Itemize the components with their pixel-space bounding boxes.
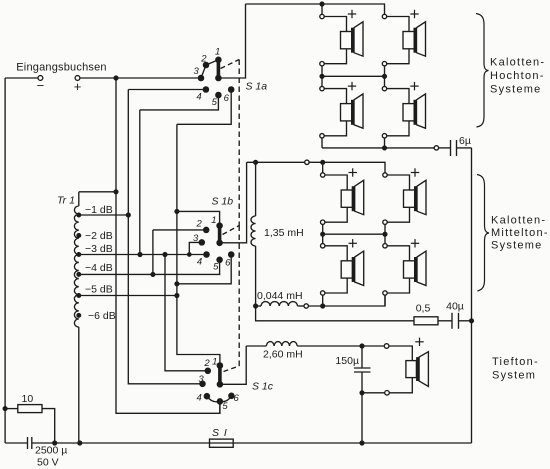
svg-text:1: 1 xyxy=(211,215,216,226)
connector circle midrange top xyxy=(305,160,309,164)
wire bus x=165: -3dB to S1c c2 xyxy=(165,255,206,371)
wire connector to capacitor C 6u xyxy=(439,147,451,149)
junction midrange rail / inductor 1,35mH xyxy=(254,160,258,164)
wire -4dB tap to S1b contact 5 xyxy=(79,262,220,274)
brace Hochton group xyxy=(476,14,489,128)
junction -1dB bus xyxy=(126,213,130,217)
junction mid rail right xyxy=(383,74,387,78)
svg-text:S 1b: S 1b xyxy=(212,196,234,208)
connector circle tweeter feed xyxy=(434,146,438,150)
S1a contact 1 xyxy=(216,57,221,62)
switch S1c xyxy=(197,346,274,413)
S1c contact 2 xyxy=(205,368,210,373)
wire S1c contact 5 down to 0dB line xyxy=(219,401,221,413)
wire plus terminal to S1a contact 3 xyxy=(80,77,201,79)
S1c contact 5 xyxy=(217,399,222,404)
S1a coupling link dashed xyxy=(221,60,240,69)
svg-text:Systeme: Systeme xyxy=(491,240,543,252)
wire T1 bottom to mid rail xyxy=(321,66,323,87)
wire S1a contact 6 to bus xyxy=(177,90,231,125)
wire connector to woofer xyxy=(389,346,412,361)
loudspeaker M4 (Mittelton) xyxy=(383,244,426,296)
transformer Tr1 winding xyxy=(74,206,78,327)
midrange bottom rail xyxy=(308,295,385,306)
svg-text:4: 4 xyxy=(197,257,202,268)
polarity + M4 xyxy=(411,239,419,247)
wire woofer bottom xyxy=(389,378,412,393)
svg-text:−4 dB: −4 dB xyxy=(85,262,113,274)
S1a contact 6 xyxy=(229,87,234,92)
resistor R1 10 xyxy=(18,405,42,413)
inductor L1 1,35mH winding xyxy=(251,216,256,246)
inductor L1 1,35mH bottom lead xyxy=(255,246,257,306)
wire bus x=128.3: S1a c4 / -1dB / S1c c3 xyxy=(128,90,202,384)
S1a bridge contact 3 to 2 xyxy=(201,65,206,78)
junction -3dB / S1b c3 jog xyxy=(188,253,191,256)
svg-text:−3 dB: −3 dB xyxy=(85,243,113,255)
svg-text:6: 6 xyxy=(234,393,240,404)
loudspeaker W1 (Tiefton) xyxy=(406,352,429,387)
capacitor C3 150u leads xyxy=(361,346,363,368)
svg-text:2: 2 xyxy=(200,54,207,65)
junction midrange mid rail left xyxy=(321,232,325,236)
wire -5dB tap to bus xyxy=(79,295,177,297)
wire S1c common to woofer branch xyxy=(220,346,246,384)
S1b contact 1 xyxy=(217,223,222,228)
svg-text:6µ: 6µ xyxy=(459,135,471,147)
loudspeaker M1 (Mittelton) xyxy=(321,173,364,225)
tap node -5dB xyxy=(77,294,81,298)
resistor R1 10 branch from left rail xyxy=(3,407,7,411)
wire resistor 10 to ground rail xyxy=(42,409,55,443)
transformer Tr1 winding bottom lead to ground rail xyxy=(78,327,80,443)
S1c common pole xyxy=(217,382,222,387)
inductor L2 0,044mH winding xyxy=(261,302,298,306)
wire bus x=176.9: S1a c6 / S1b c1 / S1b c6 / -5dB / S1c c1 xyxy=(177,124,220,365)
polarity + T4 xyxy=(410,82,418,90)
wire S1b contact 3 jog to -3dB line xyxy=(189,242,202,254)
wire 0dB vertical: plus junction down to transformer top and S1c xyxy=(116,78,220,413)
svg-text:Kalotten-: Kalotten- xyxy=(490,57,545,69)
svg-text:5: 5 xyxy=(213,262,219,273)
junction winding bottom / ground rail xyxy=(78,441,82,445)
junction tweeter rail / speaker T1 xyxy=(320,2,324,6)
junction 150u bottom xyxy=(360,391,364,395)
wire S1a contact 5 to bus xyxy=(140,95,219,110)
junction midrange mid rail right xyxy=(383,232,387,236)
S1b coupling link dashed xyxy=(223,226,240,235)
wire branch to S1b contact 1 xyxy=(177,211,220,225)
connector circle woofer bottom xyxy=(385,391,390,396)
svg-text:1: 1 xyxy=(215,47,220,58)
svg-text:S I: S I xyxy=(212,427,228,439)
S1a contact 2 xyxy=(203,62,208,67)
wire T4 bottom to bottom rail xyxy=(384,138,386,148)
wire M1 bottom to mid rail xyxy=(322,224,324,243)
svg-text:System: System xyxy=(492,370,536,382)
tap node -1dB xyxy=(77,213,81,217)
wire bus x=139.8: S1a c5 to -3dB xyxy=(139,110,141,255)
wire capacitor 6u to right bus xyxy=(457,147,472,149)
junction midrange bottom rail / M3 xyxy=(321,304,325,308)
S1c bridge contact 4 to 5 xyxy=(207,396,220,402)
svg-text:+: + xyxy=(74,79,82,94)
svg-text:2: 2 xyxy=(203,358,210,369)
wire capacitor 40u to right bus xyxy=(459,320,472,322)
switch S1b xyxy=(153,162,247,283)
S1b contact 4 xyxy=(204,252,209,257)
wire left rail (minus bus) down xyxy=(4,78,6,443)
svg-text:1: 1 xyxy=(212,356,217,367)
svg-text:150µ: 150µ xyxy=(335,355,359,367)
wire S1a common to tweeter rail xyxy=(218,4,245,78)
polarity + M3 xyxy=(349,239,357,247)
junction -3dB / S1a c5 bus xyxy=(138,253,142,257)
wire S1b common to midrange rail xyxy=(220,162,247,243)
svg-text:5: 5 xyxy=(222,401,228,412)
terminal plus (input jack) xyxy=(75,76,80,81)
switch S1a xyxy=(128,4,267,124)
inductor L1 1,35mH top lead xyxy=(255,162,257,216)
midrange top rail xyxy=(247,161,305,163)
junction tweeter bottom rail / T4 xyxy=(383,146,387,150)
svg-text:0,044 mH: 0,044 mH xyxy=(257,290,303,302)
svg-text:40µ: 40µ xyxy=(446,301,464,313)
S1a common pole xyxy=(216,75,221,80)
S1c contact 6 xyxy=(229,393,234,398)
svg-text:10: 10 xyxy=(22,393,34,405)
loudspeaker M3 (Mittelton) xyxy=(321,244,364,296)
svg-text:4: 4 xyxy=(196,91,201,102)
junction right bus / RC branch xyxy=(470,319,474,323)
wire rail drop to M1 xyxy=(322,162,324,173)
polarity + W1 xyxy=(415,338,423,346)
capacitor C2 40u plates xyxy=(451,313,453,329)
svg-text:0,5: 0,5 xyxy=(416,303,431,315)
loudspeaker T1 (Hochton) xyxy=(320,14,363,66)
junction -5dB bus xyxy=(175,294,179,298)
S1b contact 5 xyxy=(217,257,222,262)
transformer Tr1 winding top lead xyxy=(79,191,116,193)
mechanical coupling shaft dashed S1a-S1b xyxy=(238,60,240,226)
svg-text:3: 3 xyxy=(198,374,204,385)
inductor L3 2,60mH winding xyxy=(266,342,297,346)
tweeter bottom rail xyxy=(322,147,434,149)
wire T2 bottom to mid rail xyxy=(384,66,386,87)
S1b contact 2 xyxy=(204,227,209,232)
wire M4 bottom to bottom rail xyxy=(384,295,386,306)
mechanical coupling shaft dashed S1b-S1c xyxy=(238,226,240,367)
loudspeaker T4 (Hochton) xyxy=(382,86,425,138)
wire minus terminal to left rail xyxy=(5,77,38,79)
wire woofer bottom to 150u branch xyxy=(362,392,385,394)
connector circle woofer top xyxy=(384,344,389,349)
S1c coupling link dashed xyxy=(224,366,240,372)
wire inductor to woofer xyxy=(297,345,384,347)
S1b contact 3 xyxy=(199,240,204,245)
svg-text:S 1c: S 1c xyxy=(252,381,274,393)
ground rail main segment xyxy=(32,442,472,444)
svg-text:Eingangsbuchsen: Eingangsbuchsen xyxy=(16,62,106,74)
junction resistor branch / ground rail xyxy=(53,441,57,445)
junction mid rail left xyxy=(320,74,324,78)
svg-text:6: 6 xyxy=(224,93,230,104)
wire bus x=152.9: S1b c2 riser to -4dB xyxy=(152,230,154,275)
S1a contact 4 xyxy=(203,87,208,92)
wire M3 bottom to bottom rail xyxy=(322,295,324,306)
loudspeaker T3 (Hochton) xyxy=(320,86,363,138)
connector circle midrange bottom xyxy=(304,304,308,308)
junction bus / S1b c1 branch xyxy=(175,210,179,214)
wire T3 bottom to bottom rail xyxy=(321,138,323,148)
svg-text:Mittelton-: Mittelton- xyxy=(491,227,549,239)
svg-text:Systeme: Systeme xyxy=(490,84,542,96)
tap node -4dB xyxy=(77,273,81,277)
tap node -3dB xyxy=(77,253,81,257)
polarity + M1 xyxy=(349,168,357,176)
svg-text:Tiefton-: Tiefton- xyxy=(492,356,539,368)
S1c bridge contact 5 to 6 xyxy=(220,396,232,402)
S1c wiper bar contact 1 to common xyxy=(218,366,222,385)
polarity + T1 xyxy=(348,10,356,18)
tap node -2dB xyxy=(77,234,81,238)
polarity + T3 xyxy=(348,82,356,90)
junction 150u / ground rail xyxy=(360,441,364,445)
S1a contact 3 xyxy=(198,75,203,80)
wire M2 bottom to mid rail xyxy=(384,224,386,243)
svg-text:2500 µ: 2500 µ xyxy=(35,445,67,457)
S1c contact 4 xyxy=(204,394,209,399)
svg-text:−6 dB: −6 dB xyxy=(88,310,116,322)
S1c contact 1 xyxy=(217,363,222,368)
wire woofer branch from S1c xyxy=(246,345,266,347)
svg-text:Kalotten-: Kalotten- xyxy=(491,215,546,227)
svg-text:−5 dB: −5 dB xyxy=(85,284,113,296)
S1a contact 5 xyxy=(216,92,221,97)
resistor R2 0,5 xyxy=(414,317,438,325)
wire S1b contact 6 to bus xyxy=(177,255,231,284)
midrange mid rail xyxy=(323,233,385,235)
svg-text:1,35 mH: 1,35 mH xyxy=(264,227,304,239)
junction node plus/0dB xyxy=(114,76,118,80)
wire left rail to resistor 10 xyxy=(5,408,18,410)
capacitor C3 150u plates xyxy=(354,367,371,369)
svg-text:Hochton-: Hochton- xyxy=(490,70,545,82)
terminal minus (input jack) xyxy=(38,76,43,81)
svg-text:3: 3 xyxy=(194,66,200,77)
brace Mittelton group xyxy=(477,175,489,292)
svg-text:−: − xyxy=(37,78,45,93)
wire -3dB tap to S1b contact 4 xyxy=(79,254,204,256)
svg-text:−2 dB: −2 dB xyxy=(85,230,113,242)
ground rail left segment xyxy=(5,442,27,444)
tweeter top rail xyxy=(246,4,385,14)
svg-text:2,60 mH: 2,60 mH xyxy=(263,349,303,361)
svg-text:4: 4 xyxy=(197,393,202,404)
junction -3dB / S1c c2 bus xyxy=(163,253,167,257)
svg-text:6: 6 xyxy=(225,258,231,269)
tweeter mid rail xyxy=(322,75,385,77)
fuse Si xyxy=(210,439,234,447)
wire RC notch branch from midrange node xyxy=(256,306,414,321)
wire S1a contact 4 to bus xyxy=(128,89,206,91)
junction midrange rail / speaker M1 xyxy=(321,160,325,164)
tap node -6dB xyxy=(77,314,81,318)
wire 0,044mH lead xyxy=(256,305,261,307)
loudspeaker M2 (Mittelton) xyxy=(383,173,426,225)
svg-text:50 V: 50 V xyxy=(37,457,59,469)
wire S1b contact 2 to riser xyxy=(153,229,206,231)
svg-text:2: 2 xyxy=(196,218,203,229)
junction -4dB / S1b c2 riser xyxy=(151,273,155,277)
S1c contact 3 xyxy=(200,381,205,386)
wire rail drop to T1 xyxy=(321,4,323,14)
S1a wiper bar contact 1 to common xyxy=(217,60,221,78)
junction bus / S1b c6 branch xyxy=(175,282,179,286)
svg-text:S 1a: S 1a xyxy=(246,81,268,93)
wire right bus down to ground rail xyxy=(471,148,473,443)
S1b common pole xyxy=(217,240,222,245)
S1b contact 6 xyxy=(229,252,234,257)
capacitor C1 6u plates xyxy=(450,140,452,156)
svg-text:−1 dB: −1 dB xyxy=(85,204,113,216)
loudspeaker T2 (Hochton) xyxy=(382,14,425,66)
junction 0dB at transformer top xyxy=(114,190,118,194)
wire -1dB tap to vertical bus xyxy=(79,214,129,216)
svg-text:5: 5 xyxy=(212,97,218,108)
junction woofer branch / 150u xyxy=(360,344,364,348)
capacitor C4 2500u plates xyxy=(27,437,29,449)
svg-text:Tr 1: Tr 1 xyxy=(57,195,75,207)
junction 1,35mH / 0,044mH / RC branch xyxy=(254,304,258,308)
polarity + M2 xyxy=(411,168,419,176)
S1b wiper bar contact 1 to common xyxy=(218,226,222,243)
wire resistor to capacitor 40u xyxy=(438,320,452,322)
S1a bridge contact 2 to 1 xyxy=(206,60,218,65)
polarity + T2 xyxy=(410,10,418,18)
